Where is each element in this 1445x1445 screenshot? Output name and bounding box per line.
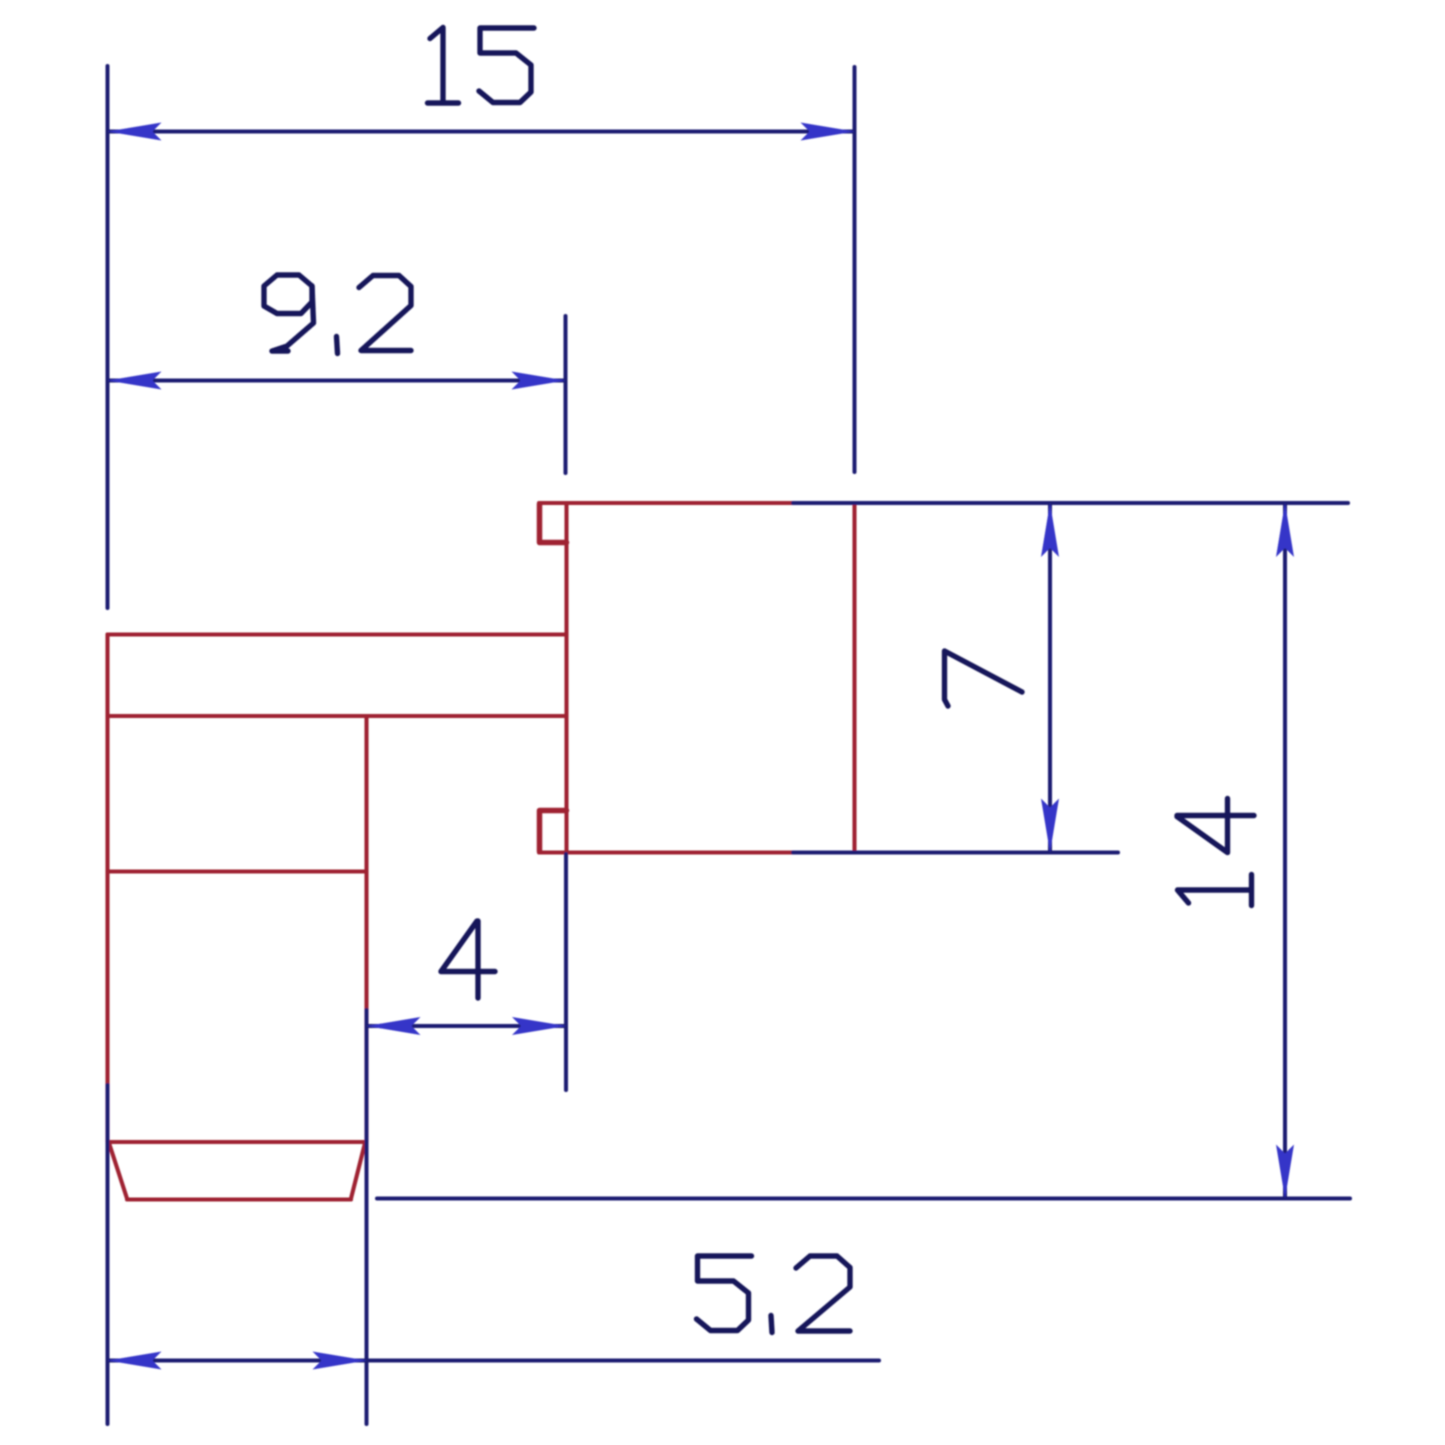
side view flange bottom edge bbox=[108, 714, 567, 718]
label 4 bbox=[441, 921, 495, 998]
front view bottom edge bbox=[539, 850, 793, 854]
dim 15 dimension line bbox=[108, 130, 855, 134]
dim 4 right arrowhead bbox=[512, 1017, 566, 1035]
label 5.2 bbox=[697, 1256, 752, 1331]
dim 7 and 14 top extension line bbox=[793, 501, 1348, 505]
side view base top edge bbox=[108, 1140, 367, 1144]
dim 15 left extension line bbox=[106, 66, 110, 608]
dim 14 bottom extension line bbox=[377, 1197, 1350, 1201]
front view left edge bbox=[564, 503, 568, 853]
side view base bottom edge bbox=[127, 1197, 351, 1201]
dim 9.2 right extension line bbox=[564, 316, 568, 473]
dim 9.2 right arrowhead bbox=[512, 372, 566, 390]
dim 7 bottom extension line bbox=[793, 851, 1118, 855]
front view right edge bbox=[852, 503, 856, 853]
label 7 (rotated) bbox=[945, 651, 1023, 706]
side view mid line bbox=[108, 869, 367, 873]
label 9.2 bbox=[264, 275, 312, 314]
dim 4 left arrowhead bbox=[367, 1017, 421, 1035]
arrowheads (bright blue) bbox=[108, 123, 1295, 1370]
dim 7 top arrowhead bbox=[1041, 503, 1059, 557]
upper pin tab bbox=[540, 504, 567, 543]
side view base left chamfer bbox=[109, 1143, 127, 1199]
part outline: side view (red) bbox=[108, 635, 567, 1200]
front view top edge bbox=[539, 501, 855, 505]
dim 9.2 left arrowhead bbox=[108, 372, 162, 390]
label 14 (rotated) bbox=[1177, 799, 1254, 906]
dim 14 bottom arrowhead bbox=[1276, 1145, 1294, 1199]
dim 5.2 dimension line bbox=[108, 1359, 880, 1363]
side view lower body right edge bbox=[364, 716, 368, 1142]
dim 9.2 dimension line bbox=[108, 379, 566, 383]
part outline: front view (red) bbox=[539, 503, 855, 853]
dim 5.2 right arrowhead bbox=[313, 1352, 367, 1370]
dim 7 bottom arrowhead bbox=[1041, 799, 1059, 853]
label 15 bbox=[428, 28, 459, 104]
dim 14 dimension line bbox=[1283, 503, 1287, 1199]
dim 15 left arrowhead bbox=[108, 123, 162, 141]
dim 5.2 left arrowhead bbox=[108, 1352, 162, 1370]
dim 7 dimension line bbox=[1048, 503, 1052, 853]
dim 15 right extension line bbox=[853, 67, 857, 472]
dim 15 right arrowhead bbox=[801, 123, 855, 141]
side view left edge bbox=[105, 635, 109, 1143]
dim 4 dimension line bbox=[367, 1024, 567, 1028]
dim 14 top arrowhead bbox=[1276, 503, 1294, 557]
dim 5.2 right extension line bbox=[365, 1010, 369, 1424]
side view base right chamfer bbox=[351, 1143, 365, 1199]
dim 5.2 left extension line bbox=[106, 1085, 110, 1424]
lower pin tab bbox=[540, 811, 567, 852]
dimension labels (CAD stroke font) bbox=[264, 28, 1254, 1333]
side view flange top edge bbox=[108, 632, 567, 636]
dim 4 right extension line bbox=[564, 854, 568, 1090]
